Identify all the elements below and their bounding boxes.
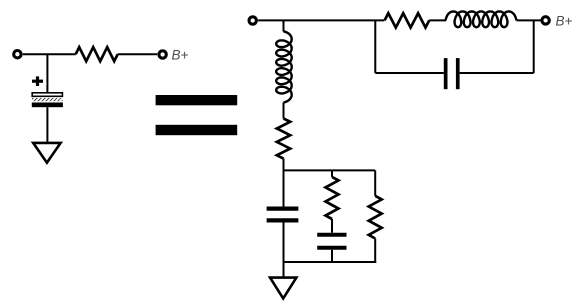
- wire: [517, 19, 541, 21]
- wire (box bottom right): [460, 72, 534, 74]
- wire: [331, 219, 333, 233]
- wire: [283, 103, 285, 119]
- wire: [283, 223, 285, 264]
- capacitor (left branch): [267, 209, 299, 221]
- svg-text:B+: B+: [172, 47, 189, 62]
- wire (ground stem): [283, 262, 285, 278]
- resistor (top branch of parallel RL): [385, 13, 430, 27]
- wire: [46, 54, 48, 92]
- inductor (top branch, horizontal): [446, 11, 517, 27]
- wire: [429, 19, 446, 21]
- capacitor (electrolytic, left circuit): [32, 93, 63, 107]
- ground (left circuit): [33, 143, 60, 163]
- wire (drop to choke): [283, 20, 285, 31]
- inductor (choke, vertical): [276, 31, 292, 102]
- equivalence sign bar 2: [156, 125, 238, 135]
- wire: [46, 107, 48, 143]
- terminal B+ (right circuit): [542, 17, 549, 24]
- wire (middle branch stem): [331, 170, 333, 177]
- resistor (middle branch): [326, 177, 339, 219]
- wire (right branch bottom): [374, 239, 376, 264]
- wire: [118, 53, 158, 55]
- wire (top rail): [258, 19, 384, 21]
- wire (box bottom left): [375, 72, 444, 74]
- capacitor (parallel with RL): [444, 58, 460, 89]
- wire (box left side): [374, 20, 376, 73]
- wire (right branch top): [374, 170, 376, 195]
- resistor (left circuit series R): [76, 47, 118, 61]
- equivalence sign bar 1: [156, 95, 238, 105]
- polarity + mark: [32, 76, 43, 86]
- wire (bottom rail): [283, 261, 377, 263]
- resistor (right branch): [369, 196, 382, 239]
- resistor (choke series resistance, vertical): [277, 119, 290, 159]
- ground (right circuit): [270, 278, 296, 299]
- svg-text:B+: B+: [556, 14, 573, 29]
- wire (box right side): [533, 20, 535, 73]
- wire: [23, 53, 76, 55]
- wire (top rail of ground network): [284, 169, 376, 171]
- wire: [331, 250, 333, 262]
- capacitor (middle branch): [317, 235, 346, 248]
- wire: [283, 159, 285, 207]
- terminal (input, left circuit): [14, 51, 21, 58]
- terminal B+ (left circuit): [159, 51, 166, 58]
- terminal (input, right circuit): [249, 17, 256, 24]
